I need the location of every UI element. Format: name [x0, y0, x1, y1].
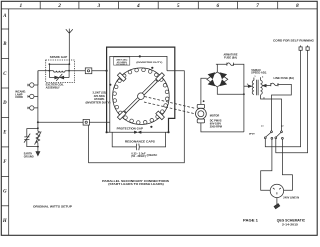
svg-text:PROTECTION GAP: PROTECTION GAP — [117, 126, 144, 130]
svg-text:PAGE 1: PAGE 1 — [243, 219, 258, 223]
svg-text:HYSHIELD: HYSHIELD — [116, 64, 127, 66]
svg-text:(INVERTER DUTY): (INVERTER DUTY) — [136, 62, 162, 64]
svg-text:E: E — [2, 131, 6, 136]
svg-text:3: 3 — [96, 3, 100, 9]
svg-text:240V LINE IN: 240V LINE IN — [283, 195, 299, 199]
svg-text:ORIGINAL WITTS SETUP: ORIGINAL WITTS SETUP — [33, 205, 72, 209]
svg-text:A: A — [2, 14, 6, 19]
svg-text:7: 7 — [256, 3, 259, 9]
svg-text:ASSEMBLY: ASSEMBLY — [46, 85, 60, 89]
svg-text:2-14-2015: 2-14-2015 — [282, 223, 299, 227]
svg-text:MOTOR: MOTOR — [210, 114, 220, 118]
svg-text:(START LEADS TO FINISH LEADS): (START LEADS TO FINISH LEADS) — [108, 182, 164, 186]
svg-text:CORD FOR SELF RUNNING: CORD FOR SELF RUNNING — [273, 39, 314, 43]
svg-text:(INVERTER DUTY): (INVERTER DUTY) — [86, 101, 111, 105]
svg-text:2500 RPM: 2500 RPM — [210, 125, 222, 129]
svg-text:SPEED ADJ.: SPEED ADJ. — [251, 71, 267, 75]
svg-text:8: 8 — [296, 3, 299, 9]
svg-text:H: H — [2, 219, 7, 224]
svg-text:CORD: CORD — [15, 95, 23, 99]
svg-text:D: D — [2, 101, 7, 106]
svg-text:(50 - 300nF): (50 - 300nF) — [131, 154, 146, 158]
svg-text:1: 1 — [20, 3, 23, 9]
svg-text:@3kVAC: @3kVAC — [147, 153, 158, 157]
svg-text:QEG SCHEMATIC: QEG SCHEMATIC — [277, 219, 306, 223]
svg-text:LINE FUSE (8A): LINE FUSE (8A) — [274, 76, 295, 80]
svg-text:FUSE (8A): FUSE (8A) — [224, 55, 237, 59]
svg-text:GROUND: GROUND — [24, 155, 34, 159]
svg-text:5: 5 — [177, 3, 180, 9]
svg-text:SPARK GAP: SPARK GAP — [50, 55, 68, 59]
svg-text:RESONANCE CAPS: RESONANCE CAPS — [125, 140, 155, 144]
svg-text:G: G — [3, 190, 7, 195]
svg-text:DPDT: DPDT — [249, 133, 256, 135]
svg-text:4: 4 — [136, 3, 140, 9]
svg-text:6: 6 — [217, 3, 220, 9]
svg-text:PARALLEL SECONDARY CONNECTIONS: PARALLEL SECONDARY CONNECTIONS — [102, 179, 169, 183]
svg-text:2: 2 — [57, 3, 61, 9]
